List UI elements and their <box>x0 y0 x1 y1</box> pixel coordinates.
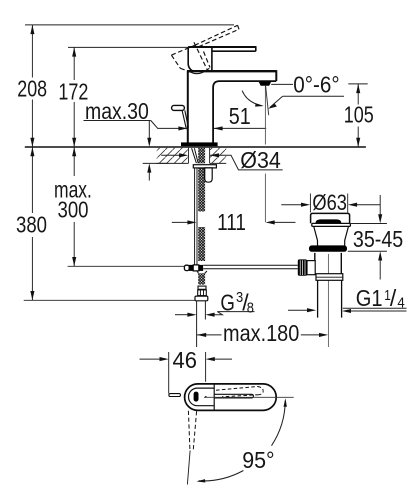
svg-text:300: 300 <box>58 196 89 222</box>
extension line top (raised lever height ref) <box>25 24 234 26</box>
svg-text:Ø63: Ø63 <box>312 190 347 215</box>
dimension 208 <box>31 25 33 147</box>
mounting washer <box>193 165 216 168</box>
top view: swung lever dashed lines <box>188 411 196 450</box>
svg-text:380: 380 <box>16 212 47 238</box>
svg-text:4: 4 <box>397 296 404 312</box>
top view: swung lever solid line <box>187 451 190 485</box>
dimension 46 <box>169 352 206 393</box>
knurled knob on actuating rod <box>298 259 307 275</box>
waste body <box>315 253 342 274</box>
water stream centerline <box>264 86 266 222</box>
svg-text:111: 111 <box>217 209 246 235</box>
G3/8 connector ferrule <box>198 286 206 289</box>
mounting hole walls <box>189 148 210 164</box>
svg-text:8: 8 <box>247 300 254 316</box>
top view: outlet black oval <box>194 392 199 402</box>
top view: lever slot solid <box>214 394 253 398</box>
waste flange <box>312 223 351 226</box>
95 degree swivel arc <box>199 401 286 481</box>
svg-text:Ø34: Ø34 <box>240 147 281 173</box>
stream line tilted 6 deg <box>266 86 269 115</box>
lever handle raised (dashed) <box>171 25 239 72</box>
dimension 111 <box>172 221 189 223</box>
svg-text:0°-6°: 0°-6° <box>293 72 339 98</box>
svg-text:95°: 95° <box>242 447 274 473</box>
pop-up waste cap <box>311 213 350 223</box>
svg-text:51: 51 <box>229 103 251 129</box>
extension line 172 ref <box>68 46 188 48</box>
handle base bottom arc <box>190 68 210 73</box>
lever handle solid <box>188 46 256 71</box>
dimension 380 <box>31 147 33 300</box>
dimension 35-45 <box>348 224 387 252</box>
top view: pull rod knob stub <box>169 394 181 397</box>
hose taper below linkage <box>197 271 207 273</box>
svg-text:105: 105 <box>344 102 374 128</box>
G3/8 thread tail <box>197 301 206 347</box>
dimension Ø63 <box>310 194 347 213</box>
flexible hoses in mounting hole <box>192 148 199 163</box>
horizontal actuating rod to waste <box>203 265 298 268</box>
top view: centerline <box>204 396 294 398</box>
braided supply hose segments <box>198 168 205 212</box>
G3/8 nut <box>195 296 208 301</box>
dimension 51 <box>214 127 266 129</box>
svg-text:172: 172 <box>58 79 88 105</box>
waste neck taper <box>314 227 349 246</box>
svg-text:G1: G1 <box>356 285 383 311</box>
svg-text:/: / <box>390 285 397 311</box>
G3/8 connector facets <box>198 290 207 296</box>
pull rod below counter <box>195 168 197 265</box>
svg-text:208: 208 <box>17 76 47 102</box>
waste collar <box>316 274 343 281</box>
top view: lever dashed alternate position <box>216 387 263 397</box>
threaded shank (braided) in hole <box>198 148 205 163</box>
countertop surface line <box>25 146 366 148</box>
top view: small dot <box>205 396 207 398</box>
faucet base plate <box>181 142 218 146</box>
svg-text:46: 46 <box>173 347 198 373</box>
waste tailpipe <box>318 280 342 317</box>
waste side port <box>307 261 315 275</box>
dimension 105 <box>348 83 367 85</box>
waste gasket ring (black) <box>309 245 347 251</box>
max.300 bottom reference line <box>68 265 185 267</box>
mounting nut <box>205 168 213 182</box>
pull rod <box>182 110 188 129</box>
faucet body outline <box>187 70 276 142</box>
countertop cross-section hatching right <box>210 148 227 164</box>
top view: divider line <box>213 384 215 411</box>
pull rod linkage clevis <box>184 265 189 270</box>
waste plug seal (black) <box>316 219 342 223</box>
380 bottom reference line <box>24 299 195 301</box>
0-6 angle arc <box>242 91 262 106</box>
aerator (spout outlet) <box>259 82 272 86</box>
top view: inner handle dome contour <box>189 388 215 406</box>
svg-text:35-45: 35-45 <box>353 226 403 252</box>
countertop underside lines <box>157 162 227 164</box>
countertop cross-section hatching left <box>157 148 189 164</box>
waste centerline <box>327 254 329 347</box>
dimension 172 <box>73 47 75 146</box>
dimension max.180 <box>197 334 222 336</box>
dimension max.300 <box>73 147 75 266</box>
svg-text:max.180: max.180 <box>223 320 299 346</box>
top view: faucet outer body <box>185 384 277 411</box>
pop-up pull rod knob <box>172 105 185 110</box>
